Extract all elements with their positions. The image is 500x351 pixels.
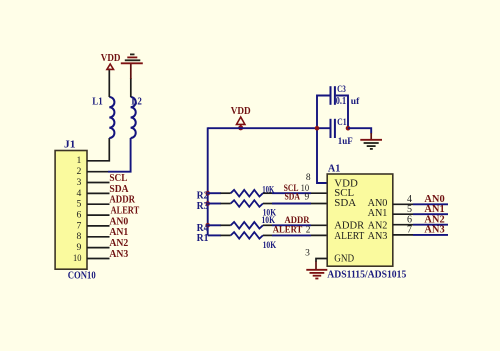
- J1 pin 8 stub: [87, 236, 110, 238]
- svg-text:7: 7: [407, 225, 412, 236]
- svg-text:5: 5: [77, 199, 82, 210]
- capacitor C3: [330, 86, 349, 128]
- IC pin 6 wire AN2: [393, 224, 413, 226]
- J1 pin 10 stub: [87, 258, 110, 260]
- svg-text:ADS1115/ADS1015: ADS1115/ADS1015: [327, 269, 406, 281]
- svg-text:1: 1: [77, 155, 82, 166]
- svg-text:0.1: 0.1: [336, 96, 346, 107]
- svg-text:ALERT: ALERT: [273, 226, 303, 236]
- resistor R1: [208, 232, 328, 239]
- power port VDD middle: [231, 106, 251, 128]
- resistor R3: [208, 200, 328, 207]
- J1 pin 6 stub: [87, 214, 110, 216]
- svg-text:2: 2: [77, 166, 82, 177]
- svg-text:AN0: AN0: [109, 216, 128, 227]
- svg-text:AN1: AN1: [368, 208, 388, 219]
- ground symbol at IC GND: [306, 270, 327, 279]
- svg-text:7: 7: [77, 220, 82, 231]
- svg-text:AN3: AN3: [109, 249, 128, 260]
- junction dot bus R3: [205, 201, 210, 206]
- IC pin 4 wire AN0: [393, 203, 413, 205]
- J1 pin 5 stub: [87, 203, 110, 205]
- J1 pin 9 stub: [87, 247, 110, 249]
- svg-text:ALERT: ALERT: [111, 206, 140, 217]
- IC A1 body: [327, 174, 393, 266]
- ground symbol right of C1: [360, 140, 382, 149]
- svg-text:6: 6: [77, 210, 82, 221]
- svg-text:AN2: AN2: [109, 238, 128, 249]
- svg-text:L1: L1: [92, 96, 103, 107]
- svg-text:L2: L2: [131, 96, 142, 107]
- svg-text:VDD: VDD: [101, 53, 121, 64]
- svg-text:R1: R1: [197, 233, 209, 244]
- connector J1 body: [55, 151, 87, 270]
- svg-text:SCL: SCL: [109, 173, 127, 184]
- svg-text:J1: J1: [64, 140, 76, 151]
- svg-text:SDA: SDA: [334, 198, 356, 209]
- wire J1 pin2 to L2: [87, 171, 108, 173]
- svg-text:10K: 10K: [262, 185, 274, 195]
- svg-text:4: 4: [77, 188, 82, 199]
- svg-text:ALERT: ALERT: [334, 231, 365, 242]
- svg-text:VDD: VDD: [231, 106, 251, 117]
- power port VDD top-left: [101, 53, 121, 69]
- svg-text:10K: 10K: [262, 216, 276, 226]
- svg-text:ADDR: ADDR: [285, 216, 310, 226]
- svg-text:SDA: SDA: [109, 184, 129, 195]
- svg-text:C1: C1: [337, 117, 347, 127]
- capacitor C1: [330, 119, 336, 138]
- svg-text:A1: A1: [328, 164, 341, 175]
- wire VDD rail to C3 and IC pin 8: [317, 96, 330, 184]
- IC pin 5 wire AN1: [393, 213, 413, 215]
- inductor L1: [109, 69, 114, 139]
- svg-text:SDA: SDA: [285, 193, 301, 203]
- svg-text:AN3: AN3: [368, 231, 388, 242]
- svg-text:3: 3: [305, 248, 310, 258]
- svg-text:10K: 10K: [263, 241, 277, 251]
- wire IC GND pin to ground: [316, 259, 327, 263]
- svg-text:GND: GND: [334, 254, 354, 265]
- svg-text:AN3: AN3: [424, 225, 444, 236]
- junction dot bus R2: [205, 191, 210, 196]
- wire VDD rail horizontal: [208, 127, 331, 129]
- svg-text:10: 10: [73, 253, 82, 264]
- svg-text:2: 2: [306, 226, 311, 236]
- svg-text:8: 8: [306, 173, 311, 183]
- wire J1 pin1 to L1: [87, 138, 109, 161]
- svg-text:uf: uf: [351, 97, 360, 107]
- IC pin 7 wire AN3: [393, 234, 413, 236]
- J1 pin 7 stub: [87, 225, 110, 227]
- junction dot rail/C3 branch: [315, 126, 320, 131]
- svg-text:R3: R3: [197, 201, 209, 212]
- svg-text:CON10: CON10: [68, 271, 96, 282]
- junction dot at VDD middle: [238, 125, 243, 130]
- svg-text:ADDR: ADDR: [109, 195, 135, 206]
- svg-text:AN1: AN1: [109, 227, 128, 238]
- earth ground top (L2): [121, 54, 143, 63]
- svg-text:9: 9: [305, 193, 310, 203]
- wire C1 to ground: [348, 128, 371, 133]
- inductor L2: [131, 64, 136, 138]
- J1 pin 4 stub: [87, 192, 110, 194]
- resistor R4: [208, 222, 328, 229]
- svg-text:1uF: 1uF: [338, 136, 353, 147]
- J1 pin 3 stub: [87, 182, 110, 184]
- svg-text:8: 8: [77, 231, 82, 242]
- junction dot C1 right: [346, 126, 351, 131]
- junction dot bus R4: [205, 223, 210, 228]
- resistor R2: [208, 190, 328, 197]
- wire resistor bus vertical: [207, 127, 209, 235]
- svg-text:3: 3: [77, 177, 82, 188]
- svg-text:9: 9: [77, 242, 82, 253]
- svg-text:C3: C3: [337, 84, 346, 94]
